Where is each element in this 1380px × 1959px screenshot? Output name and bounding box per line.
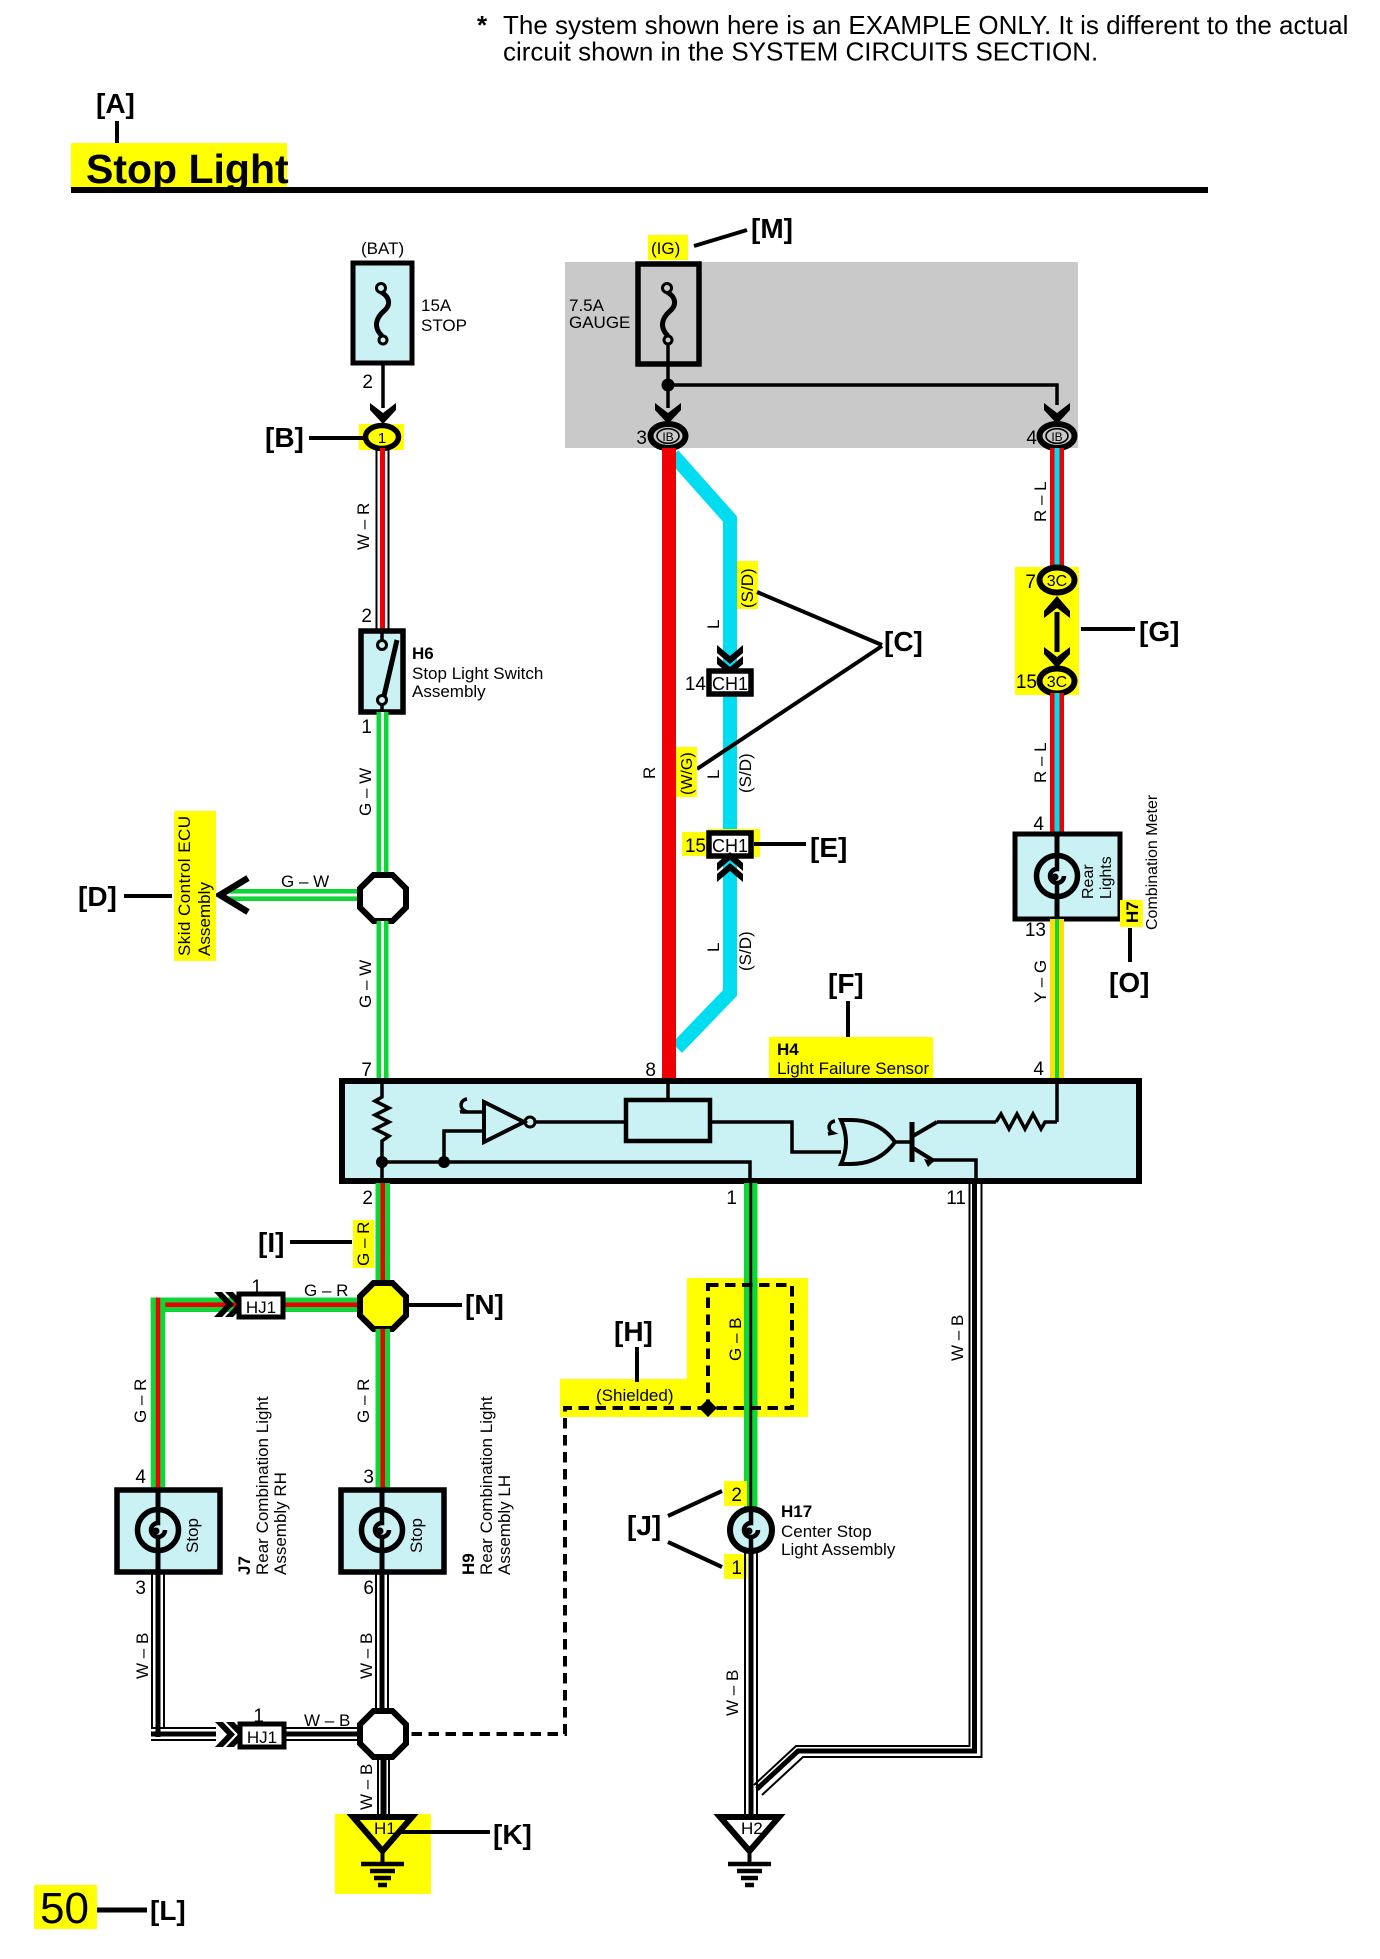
combination meter H7 box: [1015, 834, 1120, 919]
wire W-B sensor pin11 down and bend to H2: [754, 1183, 982, 1795]
svg-text:H2: H2: [741, 1819, 763, 1838]
arrow chevrons up to 7 3C: [1044, 596, 1070, 618]
svg-text:15: 15: [1016, 672, 1037, 693]
svg-text:circuit shown in the SYSTEM CI: circuit shown in the SYSTEM CIRCUITS SEC…: [503, 37, 1098, 67]
pointer line J lower: [668, 1542, 722, 1567]
svg-text:Rear Combination Light: Rear Combination Light: [477, 1396, 496, 1575]
relay box: [626, 1100, 710, 1141]
pointer line O: [1128, 928, 1132, 962]
wire resistor to pin 4: [1055, 1084, 1059, 1122]
svg-text:[H]: [H]: [614, 1316, 653, 1347]
wire W-B octagon to H1: [377, 1757, 390, 1815]
wire emitter to pin 11: [932, 1160, 976, 1183]
H9 stop bulb: [362, 1490, 403, 1572]
connector 3 IB: [651, 424, 686, 448]
title highlight: [71, 143, 287, 188]
junction octagon ground: [360, 1711, 406, 1757]
svg-text:3: 3: [636, 428, 647, 449]
svg-text:[L]: [L]: [150, 1895, 186, 1926]
pointer line C lower: [697, 646, 882, 769]
rear combination light J7 box: [117, 1490, 220, 1572]
svg-text:H4: H4: [777, 1040, 799, 1059]
svg-text:(BAT): (BAT): [361, 239, 404, 258]
connector 1 (stop fuse out): [366, 426, 399, 449]
pointer line B: [309, 436, 363, 440]
svg-text:7: 7: [1025, 572, 1036, 593]
arrow chevrons down to 15 3C: [1044, 647, 1070, 668]
svg-text:W – B: W – B: [948, 1315, 967, 1361]
svg-text:Combination Meter: Combination Meter: [1144, 794, 1161, 930]
arrow into connector 4 IB: [1044, 403, 1070, 424]
svg-text:IB: IB: [1051, 430, 1062, 444]
fuse 15A STOP element: [376, 284, 388, 345]
svg-text:Y – G: Y – G: [1031, 960, 1050, 1003]
wire G-R octagon to H9: [376, 1329, 391, 1488]
svg-text:Rear Combination Light: Rear Combination Light: [253, 1396, 272, 1575]
svg-text:[E]: [E]: [810, 832, 847, 863]
svg-text:Skid Control ECU: Skid Control ECU: [175, 816, 194, 956]
svg-text:Light Assembly: Light Assembly: [781, 1540, 896, 1559]
arrow chevrons into HJ1 upper: [214, 1292, 245, 1317]
svg-text:2: 2: [362, 372, 373, 393]
wire label (S/D) upper highlight: [737, 561, 758, 609]
svg-text:Light Failure Sensor: Light Failure Sensor: [777, 1059, 929, 1078]
wire Y-G meter to sensor pin4: [1050, 919, 1064, 1079]
shield highlight upper block: [687, 1278, 808, 1417]
switch H6 contacts: [378, 631, 398, 712]
svg-text:[G]: [G]: [1139, 616, 1179, 647]
svg-text:1: 1: [731, 1558, 742, 1579]
wire G-R sensor pin2 to octagon N: [376, 1183, 391, 1283]
wire W-B H17 to ground H2: [744, 1551, 758, 1814]
svg-text:GAUGE: GAUGE: [569, 313, 630, 332]
svg-text:H7: H7: [1123, 901, 1142, 923]
title underline: [71, 187, 1208, 193]
svg-text:CH1: CH1: [712, 674, 748, 694]
pointer line F: [846, 1001, 850, 1040]
svg-text:15A: 15A: [421, 296, 452, 315]
connector 3C highlight [G]: [1015, 567, 1079, 695]
svg-text:G – W: G – W: [356, 768, 375, 816]
connector 14 CH1: [709, 671, 751, 694]
connector 7 3C: [1040, 568, 1075, 593]
wire G-B sensor pin1 to H17: [744, 1183, 758, 1509]
connector 15 3C: [1040, 669, 1075, 694]
svg-text:R – L: R – L: [1031, 481, 1050, 522]
svg-text:3C: 3C: [1047, 674, 1067, 691]
pin 1 label H17 highlight: [724, 1554, 747, 1579]
comparator input hook: [460, 1099, 467, 1112]
svg-text:7: 7: [361, 1060, 372, 1081]
svg-text:G – W: G – W: [356, 960, 375, 1008]
wire G-W junction to sensor pin7: [377, 921, 389, 1079]
svg-text:L: L: [704, 943, 723, 952]
svg-text:Stop: Stop: [183, 1518, 202, 1553]
svg-text:2: 2: [361, 606, 372, 627]
wire label G-R highlight: [353, 1220, 374, 1268]
svg-text:(S/D): (S/D): [736, 753, 755, 793]
svg-text:[D]: [D]: [78, 881, 117, 912]
pointer line C upper: [757, 592, 882, 645]
svg-text:H1: H1: [374, 1819, 396, 1838]
shield dashed line to ground octagon: [408, 1408, 708, 1734]
wire W-B J7 down: [151, 1572, 165, 1737]
connector HJ1 upper: [239, 1294, 283, 1317]
svg-text:G – R: G – R: [354, 1222, 373, 1266]
svg-text:6: 6: [363, 1578, 374, 1599]
svg-text:Stop: Stop: [407, 1518, 426, 1553]
svg-text:(IG): (IG): [651, 239, 680, 258]
wire internal bus: [382, 1162, 750, 1183]
svg-text:3C: 3C: [1047, 573, 1067, 590]
wire fuse STOP to connector 1: [381, 365, 385, 408]
svg-text:[F]: [F]: [828, 968, 864, 999]
svg-text:Assembly LH: Assembly LH: [495, 1475, 514, 1575]
pointer line K: [400, 1830, 490, 1834]
arrow into connector 3 IB: [655, 403, 681, 424]
wire G-W branch to skid control: [225, 889, 362, 901]
svg-text:14: 14: [685, 674, 707, 695]
component label H4 highlight: [769, 1037, 933, 1078]
wire L shielded cyan path: [673, 455, 730, 1048]
svg-text:(Shielded): (Shielded): [596, 1386, 674, 1405]
svg-text:[A]: [A]: [96, 88, 135, 119]
svg-text:Center Stop: Center Stop: [781, 1522, 872, 1541]
svg-text:HJ1: HJ1: [246, 1298, 276, 1317]
OR gate hook: [828, 1121, 835, 1134]
svg-text:Assembly: Assembly: [195, 882, 214, 957]
svg-text:[M]: [M]: [751, 213, 793, 244]
svg-text:1: 1: [378, 430, 386, 447]
svg-text:[C]: [C]: [884, 626, 923, 657]
svg-text:[B]: [B]: [265, 422, 304, 453]
shield highlight left arm: [560, 1379, 687, 1417]
junction block J/B gray box: [565, 262, 1078, 448]
svg-text:4: 4: [135, 1467, 146, 1488]
arrow chevrons out of 15 CH1: [717, 852, 743, 882]
svg-text:L: L: [704, 620, 723, 629]
ground H1: [353, 1817, 412, 1885]
junction octagon upper: [360, 875, 406, 921]
pointer line J upper: [668, 1491, 722, 1516]
arrow into connector 1: [370, 403, 396, 424]
svg-text:H6: H6: [412, 644, 434, 663]
svg-text:G – R: G – R: [354, 1379, 373, 1423]
svg-text:50: 50: [40, 1884, 89, 1933]
svg-text:[N]: [N]: [465, 1289, 504, 1320]
wire comparator lower input: [444, 1131, 484, 1162]
svg-text:(W/G): (W/G): [679, 752, 696, 795]
svg-text:*: *: [477, 10, 488, 40]
wire collector to resistor: [937, 1120, 996, 1124]
connector 15 CH1: [709, 833, 751, 856]
meter rear lights bulb: [1037, 834, 1078, 919]
label (IG) highlight: [648, 235, 688, 260]
svg-text:H9: H9: [459, 1553, 478, 1575]
svg-text:Stop Light: Stop Light: [86, 146, 289, 192]
svg-text:1: 1: [361, 717, 372, 738]
svg-text:13: 13: [1025, 920, 1046, 941]
wire W-B left column bend to HJ1 lower: [151, 1727, 216, 1741]
center stop light H17 bulb: [730, 1509, 772, 1551]
rear combination light H9 box: [341, 1490, 444, 1572]
svg-text:Lights: Lights: [1098, 856, 1115, 899]
svg-text:3: 3: [135, 1578, 146, 1599]
svg-text:W – B: W – B: [723, 1670, 742, 1716]
svg-text:The system shown here is an EX: The system shown here is an EXAMPLE ONLY…: [503, 10, 1348, 40]
pointer line I: [290, 1240, 352, 1244]
wire OR to transistor base: [895, 1140, 912, 1144]
svg-text:[I]: [I]: [258, 1227, 284, 1258]
pin 2 label H17 highlight: [724, 1481, 747, 1506]
svg-text:4: 4: [1033, 1059, 1044, 1080]
pointer line N: [407, 1303, 462, 1307]
svg-text:G – R: G – R: [131, 1379, 150, 1423]
switch H6 box: [361, 631, 403, 712]
ground H2: [720, 1817, 779, 1885]
fuse 15A STOP box: [353, 263, 412, 363]
svg-text:IB: IB: [662, 430, 673, 444]
wire comparator to relay: [535, 1120, 626, 1124]
svg-text:[O]: [O]: [1109, 967, 1149, 998]
OR gate U2: [841, 1120, 895, 1164]
junction octagon N yellow: [360, 1283, 406, 1329]
svg-text:4: 4: [1026, 428, 1037, 449]
wire G-W H6 to junction: [377, 712, 389, 874]
J7 stop bulb: [138, 1490, 179, 1572]
svg-text:[J]: [J]: [627, 1510, 661, 1541]
svg-text:J7: J7: [235, 1556, 254, 1575]
label Skid Control ECU Assembly highlight: [174, 811, 216, 961]
svg-text:(S/D): (S/D): [738, 568, 757, 608]
wire hook to comparator: [462, 1110, 484, 1114]
resistor R2 horizontal: [996, 1114, 1057, 1129]
wire W-B H9 down to octagon: [375, 1572, 389, 1713]
wire junction to right branch: [668, 385, 1057, 405]
svg-text:W – B: W – B: [357, 1633, 376, 1679]
arrow chevrons into HJ1 lower: [215, 1722, 246, 1747]
pointer line A: [115, 121, 119, 146]
ground H1 highlight: [335, 1814, 431, 1894]
connector HJ1 lower: [240, 1724, 284, 1747]
svg-text:8: 8: [645, 1060, 656, 1081]
connector 1 highlight: [359, 424, 404, 450]
svg-text:W – R: W – R: [354, 503, 373, 550]
svg-text:2: 2: [731, 1485, 742, 1506]
wire relay to OR gate: [710, 1122, 841, 1152]
fuse 7.5A GAUGE element: [662, 284, 674, 345]
node dot comparator input: [438, 1156, 450, 1168]
svg-text:[K]: [K]: [493, 1819, 532, 1850]
connector 15 CH1 highlight: [708, 829, 760, 857]
svg-text:Assembly RH: Assembly RH: [271, 1472, 290, 1575]
svg-text:HJ1: HJ1: [247, 1728, 277, 1747]
fuse 7.5A GAUGE box: [638, 264, 699, 364]
wire label (W/G) highlight: [676, 747, 697, 797]
transistor Q1: [910, 1122, 915, 1162]
wire between 3C connectors: [1055, 612, 1060, 652]
wire pin8 to relay: [666, 1084, 670, 1100]
shield dashed box: [708, 1285, 792, 1408]
svg-text:R: R: [640, 767, 659, 779]
wire W-R connector1 to H6: [376, 448, 390, 631]
shield junction dot: [699, 1399, 717, 1417]
svg-text:(S/D): (S/D): [736, 931, 755, 971]
svg-text:Stop Light Switch: Stop Light Switch: [412, 664, 543, 683]
resistor R vertical: [375, 1084, 389, 1183]
wire R-L 3C to meter: [1050, 693, 1064, 834]
svg-text:11: 11: [946, 1188, 966, 1209]
sensor internals: [375, 1084, 1057, 1183]
svg-text:W – B: W – B: [133, 1633, 152, 1679]
svg-text:G – B: G – B: [726, 1318, 745, 1361]
connector 4 IB: [1040, 424, 1075, 448]
svg-text:G – R: G – R: [304, 1281, 348, 1300]
wire R red main: [662, 448, 676, 1079]
svg-text:1: 1: [726, 1188, 737, 1209]
pointer line H: [635, 1347, 639, 1382]
svg-text:L: L: [704, 770, 723, 779]
svg-text:3: 3: [363, 1467, 374, 1488]
svg-text:Rear: Rear: [1080, 864, 1097, 899]
light failure sensor H4 box: [342, 1081, 1139, 1181]
wire R-L IB4 to 3C: [1050, 448, 1064, 569]
pointer line E: [754, 842, 806, 846]
wire G-R horizontal octagon to HJ1 to left column: [151, 1298, 362, 1489]
pointer line G: [1081, 627, 1135, 631]
arrow chevrons into 14 CH1: [717, 645, 743, 675]
node dot pin2: [376, 1156, 388, 1168]
wire gauge fuse down: [666, 344, 670, 408]
page number highlight: [34, 1885, 97, 1929]
pointer line M: [694, 230, 747, 246]
pointer line D: [124, 894, 172, 898]
svg-text:STOP: STOP: [421, 316, 467, 335]
svg-text:G – W: G – W: [281, 872, 329, 891]
junction dot: [662, 379, 675, 392]
pin 15 label highlight: [682, 832, 708, 856]
wire W-B HJ1 to octagon ground: [283, 1727, 361, 1741]
pointer line L: [97, 1908, 147, 1913]
arrow to skid control ECU: [220, 878, 248, 912]
component label H7 highlight: [1120, 900, 1143, 927]
svg-text:15: 15: [685, 836, 706, 857]
svg-text:H17: H17: [781, 1502, 812, 1521]
svg-text:W – B: W – B: [357, 1764, 376, 1810]
op-amp U1: [484, 1102, 524, 1142]
svg-text:2: 2: [362, 1188, 373, 1209]
svg-text:W – B: W – B: [304, 1711, 350, 1730]
svg-text:R – L: R – L: [1031, 742, 1050, 783]
svg-text:Assembly: Assembly: [412, 682, 486, 701]
